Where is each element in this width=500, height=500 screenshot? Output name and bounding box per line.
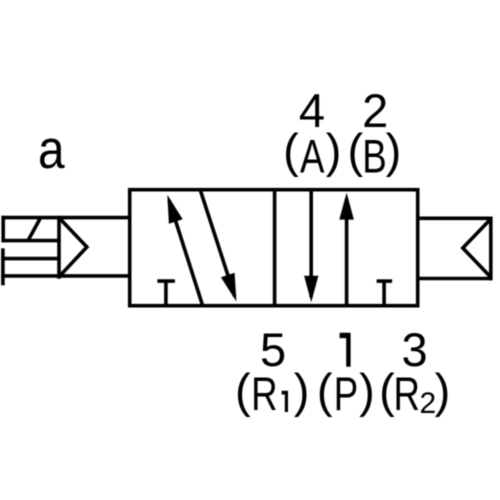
left chamber flow arrow up shaft	[169, 200, 202, 304]
right chamber arrow down head	[304, 276, 318, 303]
left triangle sides	[60, 218, 87, 276]
solenoid bottom line	[2, 239, 61, 243]
valve body outer rectangle	[130, 190, 418, 306]
right box right edge / triangle base	[489, 217, 493, 281]
right chamber blocked port T stub	[382, 281, 386, 305]
left chamber flow arrow down shaft	[200, 190, 235, 297]
solenoid left edge	[1, 216, 5, 243]
right chamber arrow up head	[339, 193, 354, 220]
svg-text:(: (	[379, 364, 395, 417]
port number 1	[340, 333, 351, 367]
svg-text:R: R	[251, 368, 277, 420]
actuator bottom line	[1, 274, 131, 278]
svg-text:B: B	[362, 130, 386, 182]
solenoid top line	[2, 216, 132, 220]
svg-text:(: (	[235, 364, 251, 417]
valve chamber divider	[273, 189, 277, 306]
right chamber arrow down shaft (port 4)	[309, 190, 313, 297]
svg-text:P: P	[334, 368, 358, 420]
solenoid diagonal	[28, 218, 40, 240]
terminal bar	[1, 248, 5, 285]
svg-text:(: (	[283, 124, 299, 177]
svg-text:4: 4	[299, 84, 325, 137]
svg-text:A: A	[300, 130, 325, 182]
svg-text:a: a	[38, 118, 65, 180]
right chamber blocked port T cap	[377, 279, 393, 283]
svg-text:): )	[326, 124, 342, 177]
svg-text:(: (	[347, 124, 363, 177]
left chamber blocked port T stub	[164, 281, 168, 305]
right triangle sides	[463, 220, 490, 277]
label (R1) subscript 1	[282, 391, 288, 412]
right chamber arrow up shaft (port 1)	[345, 199, 349, 306]
svg-text:): )	[435, 364, 451, 417]
right box bottom line	[418, 277, 493, 281]
left triangle base	[57, 216, 61, 279]
svg-text:R: R	[393, 368, 419, 420]
terminal middle line	[1, 257, 60, 261]
svg-text:): )	[386, 124, 402, 177]
right box top line	[418, 217, 493, 221]
svg-text:2: 2	[362, 84, 388, 137]
left chamber flow arrow down head	[221, 273, 237, 302]
svg-text:(: (	[317, 364, 333, 417]
left chamber flow arrow up head	[167, 195, 182, 224]
svg-text:): )	[294, 364, 310, 417]
svg-text:): )	[359, 364, 375, 417]
left chamber blocked port T cap	[157, 279, 175, 283]
